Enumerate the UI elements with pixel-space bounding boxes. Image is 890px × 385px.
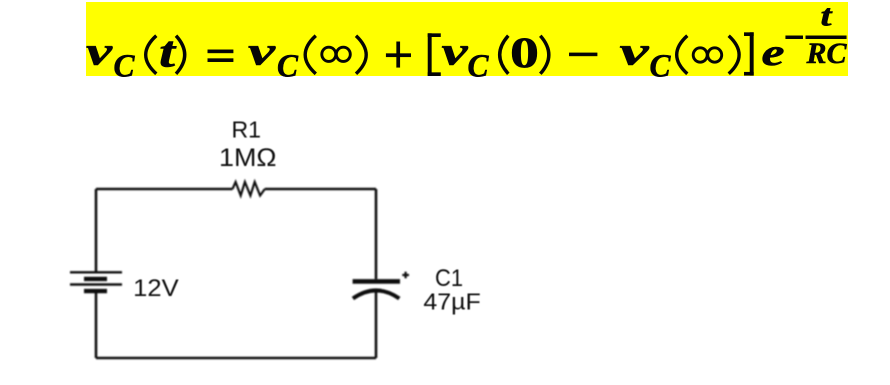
wire bottom [96, 357, 376, 360]
paren close 1 [176, 36, 185, 74]
bracket open [428, 34, 431, 76]
battery V1 [70, 272, 122, 291]
svg-text:47µF: 47µF [423, 289, 480, 315]
svg-text:R1: R1 [232, 117, 262, 143]
svg-text:12V: 12V [133, 275, 178, 302]
paren open 2 [305, 36, 316, 74]
exponent minus [786, 36, 803, 39]
infinity symbol 2 [693, 48, 722, 62]
bracket close [750, 33, 753, 76]
minus sign [569, 53, 597, 56]
capacitor C1 [353, 272, 409, 299]
paren open 3 [500, 36, 509, 74]
resistor R1 [233, 182, 265, 196]
paren close 3 [540, 36, 549, 74]
wire left side lower [95, 293, 98, 358]
paren close 4 [729, 36, 739, 74]
wire right side upper [375, 189, 378, 279]
wire left side upper [95, 189, 98, 272]
equals sign [208, 50, 233, 53]
fraction bar [806, 36, 847, 39]
formula highlight box [86, 2, 848, 76]
paren close 2 [356, 36, 366, 74]
plus sign [386, 54, 411, 57]
wire resistor to top-right [265, 188, 376, 191]
formula equation SVG [0, 0, 890, 110]
paren open 4 [677, 36, 688, 74]
paren open 1 [146, 36, 157, 74]
infinity symbol 1 [322, 47, 351, 61]
svg-text:1MΩ: 1MΩ [219, 144, 277, 172]
wire top-left to resistor [96, 188, 233, 191]
wire right side lower [375, 293, 378, 359]
